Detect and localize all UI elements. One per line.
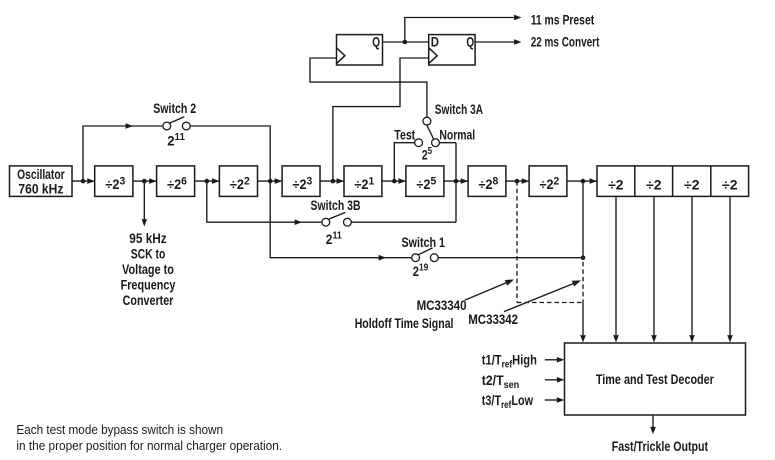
switch1 terminal right <box>430 254 438 262</box>
arrowhead switch2 wire <box>126 123 133 129</box>
oscillator box <box>10 166 73 197</box>
arrowhead into div4 <box>275 178 282 184</box>
switch3B lever <box>328 212 345 219</box>
flipflop U1 box <box>337 35 383 65</box>
wire switch2 right branch <box>190 126 270 181</box>
arrowhead into div9 <box>590 178 597 184</box>
switch3B terminal right <box>344 218 352 226</box>
svg-text:÷2: ÷2 <box>646 178 662 193</box>
wire div2 cell3 drop <box>691 196 693 335</box>
svg-text:SCK to: SCK to <box>131 247 166 262</box>
wire switch1 right branch <box>438 257 583 259</box>
wire ff1 Q to ff2 D <box>383 41 429 43</box>
flipflop U2 box <box>429 35 475 65</box>
switch1 terminal left <box>412 254 420 262</box>
svg-text:÷2: ÷2 <box>722 178 738 193</box>
divider quad separator 2 <box>672 166 674 197</box>
wire vertical 583 upper <box>582 181 584 258</box>
divider box 2^1 <box>344 166 382 197</box>
wire switch3B left branch <box>207 181 322 222</box>
junction dot div6 output <box>454 179 459 184</box>
junction dot div1 output <box>142 179 147 184</box>
arrowhead decoder col3 <box>651 335 657 342</box>
wire ff1 clock <box>310 58 427 117</box>
svg-text:Test: Test <box>394 127 415 142</box>
svg-text:Fast/Trickle Output: Fast/Trickle Output <box>612 439 709 454</box>
svg-text:in the proper position for nor: in the proper position for normal charge… <box>16 438 282 453</box>
svg-text:95 kHz: 95 kHz <box>129 231 167 246</box>
svg-text:Holdoff Time Signal: Holdoff Time Signal <box>355 316 454 331</box>
wire divider8 to divider9 <box>567 180 597 182</box>
switch2 terminal left <box>163 122 171 130</box>
junction dot switch1 node <box>581 255 586 260</box>
switch3A lever <box>427 125 434 139</box>
wire divider3 to divider4 <box>258 180 283 182</box>
wire decoder input t3 <box>545 399 557 401</box>
svg-text:÷2: ÷2 <box>608 178 624 193</box>
wire div2 cell1 drop <box>615 196 617 335</box>
wire switch1 left branch <box>270 181 411 258</box>
divider box 2^6 <box>157 166 195 197</box>
divider box 2^8 <box>468 166 506 197</box>
wire 11ms preset <box>405 18 515 43</box>
arrowhead fast trickle output <box>650 427 656 434</box>
arrowhead switch3B wire <box>295 219 302 225</box>
divider quad separator 1 <box>634 166 636 197</box>
junction dot ff1 Q node <box>403 40 408 45</box>
junction dot osc output <box>81 179 86 184</box>
svg-text:Normal: Normal <box>439 127 475 142</box>
wire ff2 clock <box>333 58 429 181</box>
svg-text:Each test mode bypass switch i: Each test mode bypass switch is shown <box>16 422 223 437</box>
wire div2 cell2 drop <box>653 196 655 335</box>
wire switch3B right branch <box>351 221 456 223</box>
svg-text:Converter: Converter <box>123 293 174 308</box>
svg-text:MC33342: MC33342 <box>468 312 518 327</box>
svg-text:Voltage to: Voltage to <box>122 262 174 277</box>
wire normal vertical <box>455 143 457 223</box>
wire divider2 to divider3 <box>195 180 220 182</box>
wire MC33340 pointer line <box>465 283 507 301</box>
svg-text:Frequency: Frequency <box>121 278 176 293</box>
arrowhead decoder col5 <box>727 335 733 342</box>
arrowhead 95kHz down <box>142 219 148 226</box>
svg-text:÷2: ÷2 <box>684 178 700 193</box>
junction dot div5 output <box>392 179 397 184</box>
wire 95kHz branch <box>143 181 145 219</box>
divider quad separator 3 <box>710 166 712 197</box>
switch2 lever <box>169 117 184 124</box>
svg-text:11 ms Preset: 11 ms Preset <box>531 12 595 27</box>
arrowhead into div5 <box>337 178 344 184</box>
arrowhead decoder col1 <box>580 335 586 342</box>
divider box 2^5 <box>406 166 444 197</box>
flipflop U1 clock triangle <box>337 48 345 64</box>
wire decoder input t2 <box>545 379 557 381</box>
arrowhead MC33342 pointer <box>572 280 581 286</box>
arrowhead decoder t2 <box>557 377 564 383</box>
junction dot div2 output <box>205 179 210 184</box>
svg-text:22 ms Convert: 22 ms Convert <box>531 35 600 50</box>
svg-text:Q: Q <box>372 35 380 50</box>
divider box 2^3 second <box>282 166 320 197</box>
wire decoder output <box>652 415 654 427</box>
arrowhead into div8 <box>522 178 529 184</box>
arrowhead into div1 <box>87 178 94 184</box>
wire dashed horizontal <box>517 302 583 304</box>
svg-text:760 kHz: 760 kHz <box>18 182 63 197</box>
arrowhead into div6 <box>399 178 406 184</box>
arrowhead 11ms preset <box>514 15 521 21</box>
arrowhead decoder col4 <box>689 335 695 342</box>
svg-text:Switch 3A: Switch 3A <box>435 102 483 117</box>
junction dot div8 output <box>581 179 586 184</box>
arrowhead MC33340 pointer <box>505 280 514 286</box>
wire vertical 583 lower to decoder <box>582 303 584 336</box>
svg-text:Switch 2: Switch 2 <box>153 101 196 116</box>
wire MC33342 pointer line <box>504 284 574 312</box>
wire oscillator to divider1 <box>72 180 95 182</box>
arrowhead into div3 <box>212 178 219 184</box>
junction dot div3 output <box>268 179 273 184</box>
svg-text:Q: Q <box>466 35 474 50</box>
arrowhead decoder t1 <box>557 357 564 363</box>
switch1 lever <box>418 248 432 255</box>
svg-text:MC33340: MC33340 <box>417 298 467 313</box>
junction dot div7 output <box>515 179 520 184</box>
svg-text:Switch 3B: Switch 3B <box>311 198 361 213</box>
wire divider6 to divider7 <box>444 180 468 182</box>
wire dashed MC33342 vertical <box>582 262 584 303</box>
svg-text:D: D <box>431 35 439 50</box>
wire test branch <box>394 143 414 181</box>
switch3A terminal test <box>415 139 423 147</box>
wire divider7 to divider8 <box>506 180 529 182</box>
time and test decoder box <box>565 343 746 415</box>
junction dot div4 output <box>331 179 336 184</box>
arrowhead into div7 <box>461 178 468 184</box>
arrowhead decoder t3 <box>557 397 564 403</box>
divider box 2^2 second <box>529 166 567 197</box>
arrowhead into div2 <box>149 178 156 184</box>
divider quad box <box>597 166 749 197</box>
wire normal horizontal <box>440 142 457 144</box>
switch3A terminal normal <box>432 139 440 147</box>
wire divider1 to divider2 <box>133 180 157 182</box>
switch3A terminal common <box>423 117 431 125</box>
arrowhead 22ms convert <box>514 39 521 45</box>
wire divider5 to divider6 <box>382 180 406 182</box>
wire dashed MC33340 vertical <box>516 181 518 302</box>
wire 22ms convert <box>475 41 515 43</box>
wire divider4 to divider5 <box>320 180 344 182</box>
wire div2 cell4 drop <box>729 196 731 335</box>
svg-text:Switch 1: Switch 1 <box>402 235 446 250</box>
flipflop U2 clock triangle <box>429 48 438 64</box>
arrowhead switch1 wire <box>379 255 386 261</box>
divider box 2^2 <box>219 166 257 197</box>
arrowhead decoder col2 <box>613 335 619 342</box>
svg-text:Time and Test Decoder: Time and Test Decoder <box>596 372 715 387</box>
divider box 2^3 <box>95 166 133 197</box>
switch2 terminal right <box>182 122 190 130</box>
svg-text:Oscillator: Oscillator <box>17 167 65 182</box>
wire decoder input t1 <box>545 359 557 361</box>
switch3B terminal left <box>322 218 330 226</box>
wire switch2 left branch <box>83 126 163 181</box>
